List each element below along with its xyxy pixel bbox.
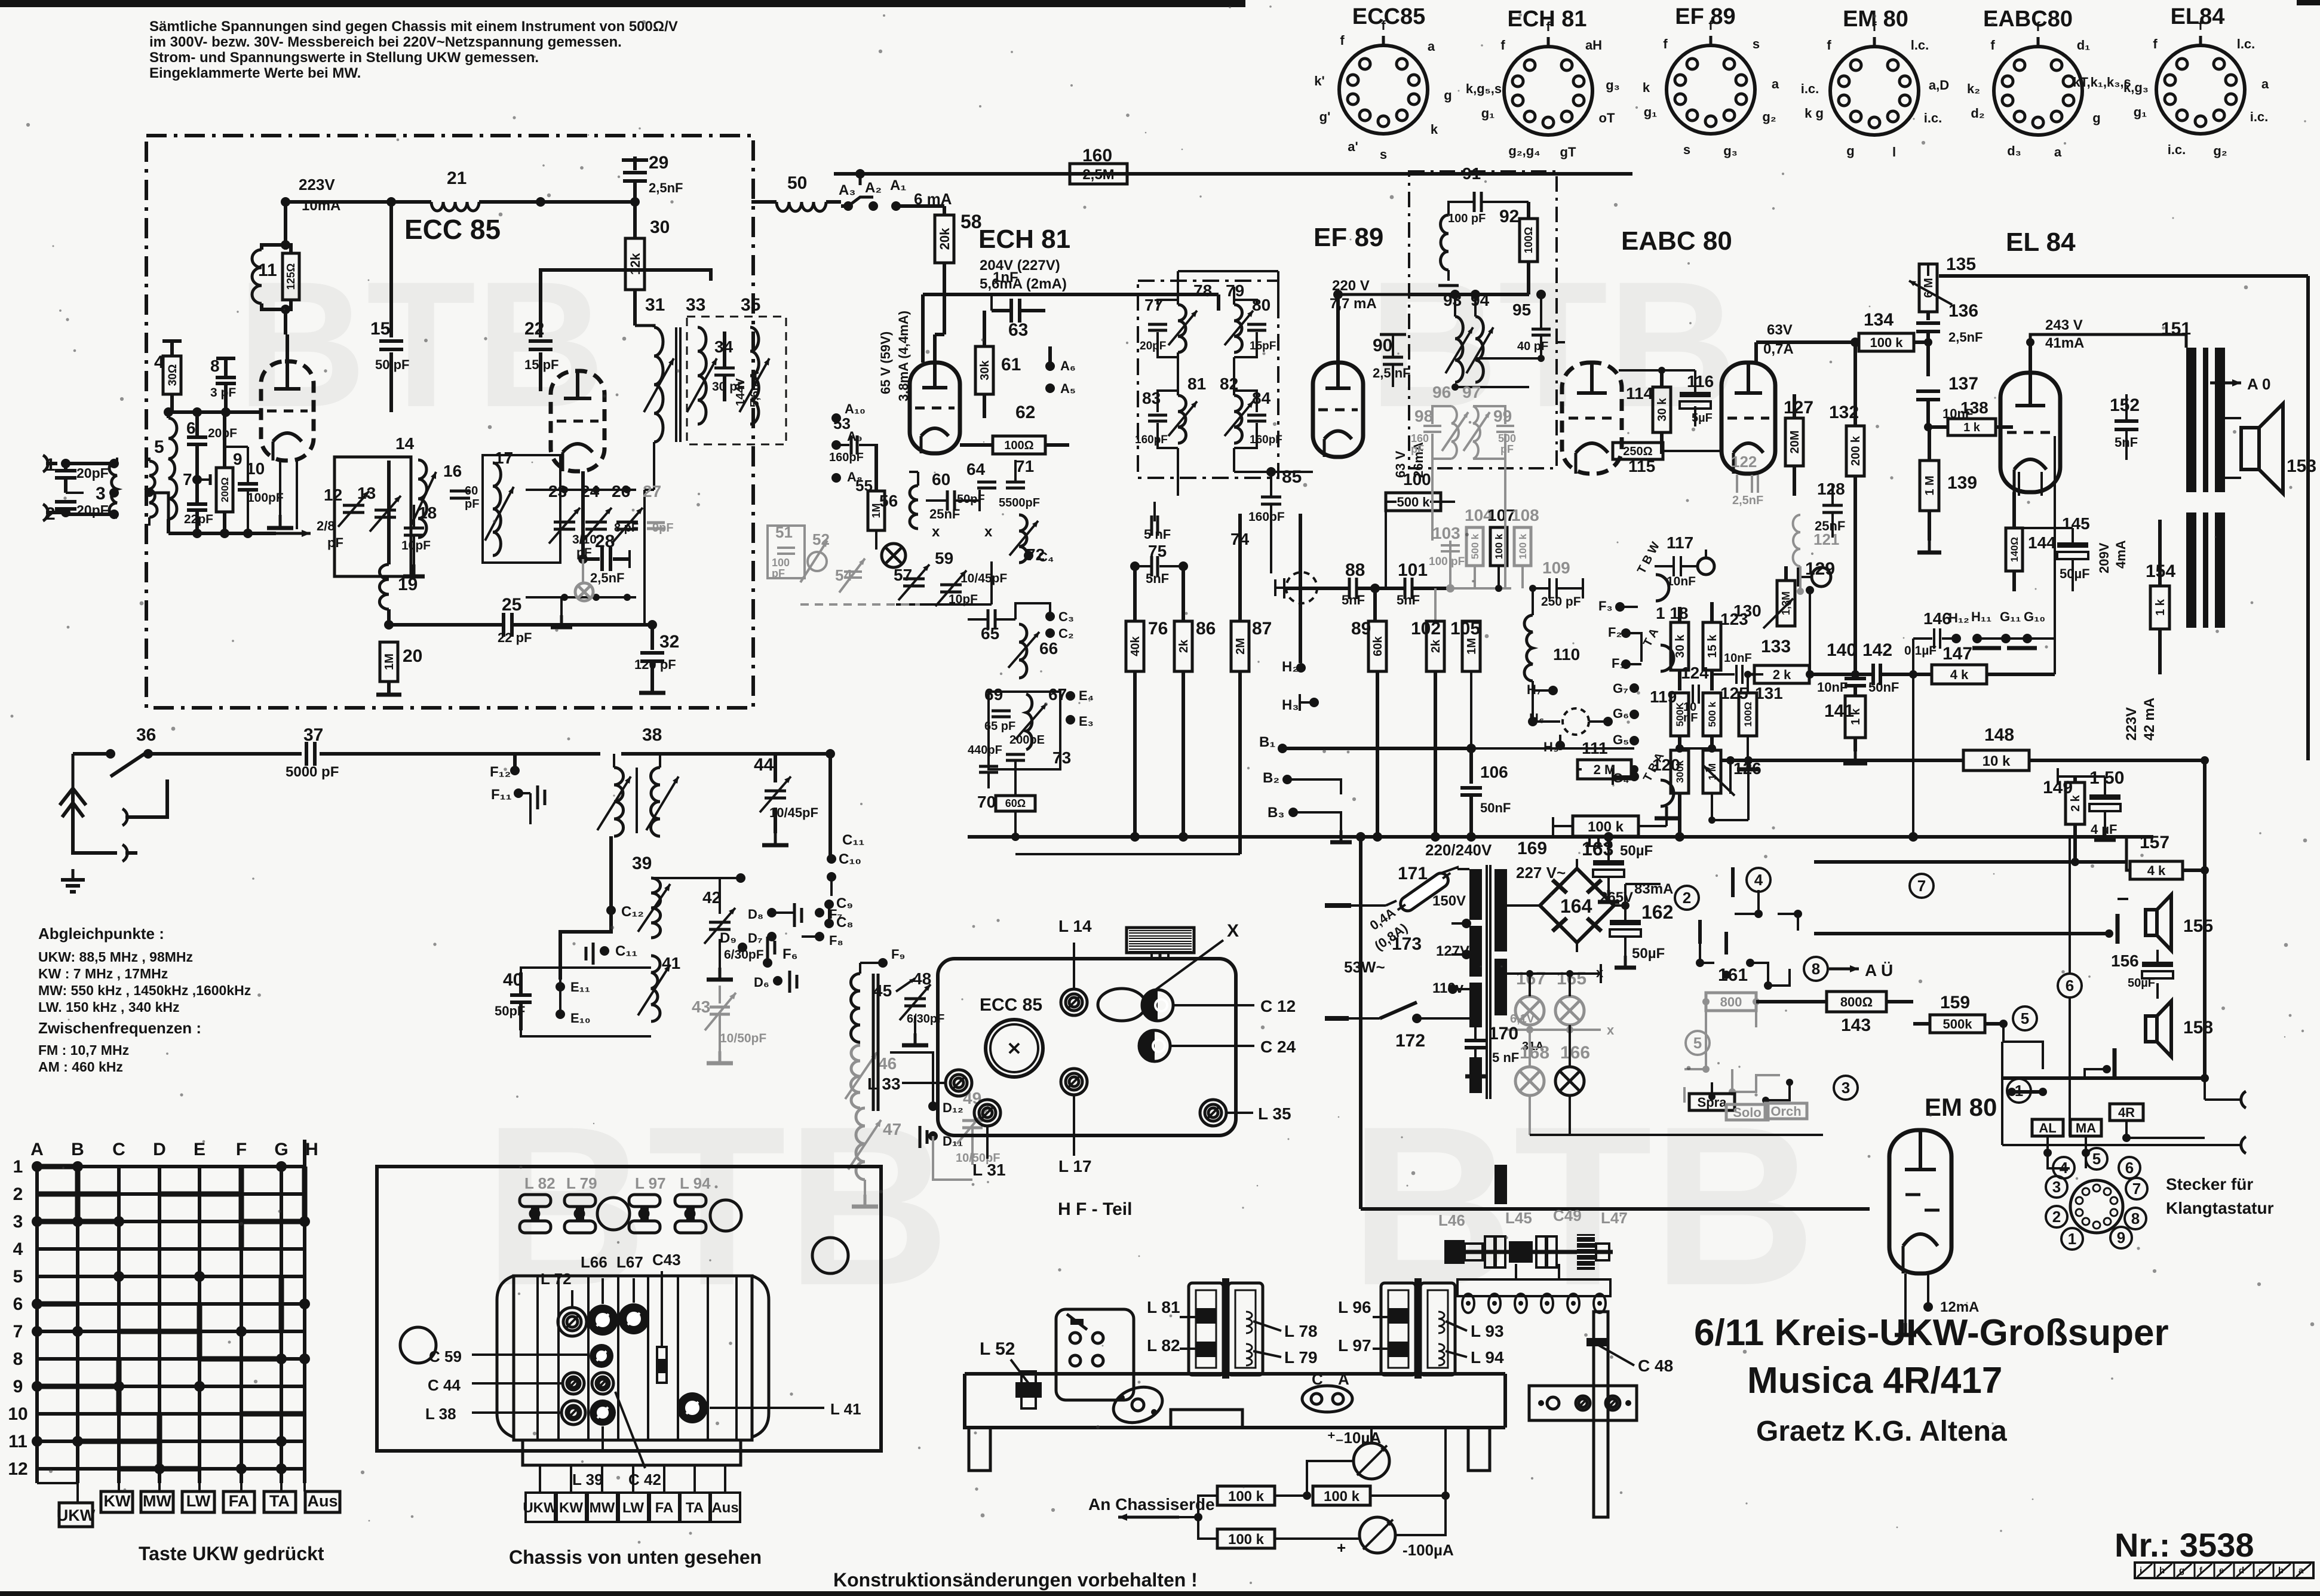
svg-text:Strom- und Spannungswerte in: Strom- und Spannungswerte in Stellung UK… <box>149 50 539 66</box>
terminals A10 A9 A8 <box>831 413 841 423</box>
svg-text:10/45pF: 10/45pF <box>769 805 818 820</box>
svg-text:1: 1 <box>2015 1082 2023 1100</box>
svg-text:5: 5 <box>2021 1009 2029 1027</box>
svg-text:77: 77 <box>1144 296 1163 314</box>
svg-text:ECH 81: ECH 81 <box>978 225 1070 254</box>
svg-text:140Ω: 140Ω <box>2009 537 2020 562</box>
svg-text:8: 8 <box>2131 1210 2140 1227</box>
variable arrows <box>644 358 674 412</box>
svg-text:160pF: 160pF <box>829 451 864 464</box>
wire EABC internal <box>1557 341 1565 343</box>
svg-text:800: 800 <box>1720 995 1742 1009</box>
svg-text:100 k: 100 k <box>1228 1488 1265 1505</box>
svg-text:g: g <box>1444 88 1451 103</box>
svg-text:10pF: 10pF <box>401 539 431 553</box>
svg-text:7: 7 <box>1917 877 1926 895</box>
svg-text:f: f <box>1340 33 1345 48</box>
svg-text:Aus: Aus <box>711 1500 738 1516</box>
svg-text:500 k: 500 k <box>1397 495 1430 510</box>
svg-text:122: 122 <box>1731 453 1757 471</box>
wire IF to EF89 <box>1177 357 1179 395</box>
svg-text:5 nF: 5 nF <box>1492 1050 1519 1065</box>
svg-text:g₁: g₁ <box>1644 105 1658 119</box>
svg-text:f: f <box>1663 36 1668 51</box>
trimmer L33 <box>946 1070 972 1096</box>
wire bottom right bus <box>2003 1076 2205 1080</box>
svg-text:C₁₁: C₁₁ <box>615 943 637 959</box>
svg-text:20: 20 <box>403 646 422 666</box>
svg-text:L 35: L 35 <box>1258 1104 1291 1123</box>
svg-text:65 V (59V): 65 V (59V) <box>878 332 893 394</box>
svg-text:h: h <box>2159 1566 2165 1576</box>
wire grid feed vertical <box>1912 674 1914 837</box>
keyboard matrix grid <box>8 1140 318 1483</box>
svg-text:gT: gT <box>1560 145 1576 159</box>
svg-text:50µF: 50µF <box>2060 566 2090 581</box>
svg-text:L 97: L 97 <box>1338 1336 1371 1355</box>
svg-text:119: 119 <box>1650 687 1677 706</box>
svg-text:42: 42 <box>702 888 721 907</box>
svg-text:152: 152 <box>2110 395 2140 415</box>
svg-text:f: f <box>1546 19 1551 34</box>
HF-Teil box <box>938 959 1236 1135</box>
svg-text:100 k: 100 k <box>1493 533 1505 559</box>
svg-text:116: 116 <box>1687 372 1714 391</box>
terminal F11 <box>514 788 523 798</box>
svg-text:60Ω: 60Ω <box>1005 797 1026 809</box>
svg-text:6/11 Kreis-UKW-Großsuper: 6/11 Kreis-UKW-Großsuper <box>1694 1312 2169 1353</box>
tube socket EM 80 <box>1801 7 1949 159</box>
core L41 <box>677 1392 708 1423</box>
svg-text:87: 87 <box>1252 619 1272 639</box>
svg-text:98: 98 <box>1414 407 1433 425</box>
svg-text:C49: C49 <box>1553 1207 1582 1224</box>
svg-text:109: 109 <box>1542 558 1570 577</box>
svg-text:25nF: 25nF <box>929 507 960 521</box>
svg-text:Spra: Spra <box>1698 1095 1727 1110</box>
svg-text:C₂: C₂ <box>1058 626 1074 641</box>
svg-text:d₃: d₃ <box>2007 143 2021 158</box>
svg-text:69: 69 <box>984 685 1003 704</box>
tube socket EF 89 <box>1643 4 1779 158</box>
svg-text:7: 7 <box>2132 1180 2141 1198</box>
svg-text:A₁: A₁ <box>890 177 906 194</box>
svg-text:18: 18 <box>418 504 437 522</box>
speaker 153 <box>2241 428 2259 469</box>
svg-text:159: 159 <box>1940 993 1970 1012</box>
svg-text:500: 500 <box>1498 432 1516 444</box>
svg-text:133: 133 <box>1761 637 1791 656</box>
dial shaft assembly <box>1444 1234 1613 1270</box>
svg-text:100 k: 100 k <box>1517 533 1529 559</box>
svg-text:2: 2 <box>13 1184 23 1204</box>
svg-text:EF 89: EF 89 <box>1675 4 1735 29</box>
wire speaker column <box>2203 760 2207 1078</box>
AM antenna jacks <box>122 809 127 825</box>
svg-text:11: 11 <box>258 260 277 280</box>
svg-text:250Ω: 250Ω <box>1623 445 1652 458</box>
svg-text:L 78: L 78 <box>1284 1322 1318 1340</box>
tube EF89 <box>1313 363 1363 457</box>
svg-text:Solo: Solo <box>1733 1105 1762 1120</box>
svg-text:pF: pF <box>1411 443 1424 455</box>
terminals D12 D11 <box>928 1101 938 1111</box>
speaker 158 switch <box>2113 1048 2117 1078</box>
svg-text:138: 138 <box>1960 398 1988 417</box>
svg-text:5: 5 <box>1693 1034 1702 1052</box>
coil of 91 <box>1441 215 1449 270</box>
tuning capacitor comb <box>1127 928 1194 959</box>
svg-text:UKW: UKW <box>523 1500 557 1516</box>
trimmer C24 <box>1139 1030 1155 1061</box>
svg-text:11: 11 <box>8 1432 27 1451</box>
hole circle 1 <box>597 1198 630 1230</box>
svg-text:144: 144 <box>2028 533 2056 552</box>
svg-text:s: s <box>1380 147 1387 162</box>
svg-text:1nF: 1nF <box>993 269 1018 286</box>
terminal C11 lower <box>600 946 609 956</box>
svg-text:142: 142 <box>1862 640 1892 660</box>
svg-text:Sämtliche Spannungen sind g: Sämtliche Spannungen sind gegen Chassis … <box>149 19 678 35</box>
svg-text:KW : 7 MHz , 17MHz: KW : 7 MHz , 17MHz <box>38 966 168 981</box>
circled 5 <box>2013 1006 2037 1030</box>
svg-text:L 17: L 17 <box>1058 1157 1092 1175</box>
svg-text:500 k: 500 k <box>1469 533 1481 559</box>
svg-text:148: 148 <box>1984 725 2014 745</box>
svg-text:5nF: 5nF <box>2115 435 2138 450</box>
svg-text:L 38: L 38 <box>425 1405 456 1423</box>
svg-text:14: 14 <box>395 434 415 453</box>
svg-text:100 k: 100 k <box>1228 1531 1265 1548</box>
svg-text:D₇: D₇ <box>748 931 763 946</box>
svg-text:im 300V- bezw. 30V- Messbere: im 300V- bezw. 30V- Messbereich bei 220V… <box>149 34 622 50</box>
svg-text:71: 71 <box>1015 457 1034 475</box>
terminals H12 H11 G11 G10 <box>1951 634 1961 643</box>
grid bold segments <box>37 1167 305 1469</box>
terminal F9 <box>878 958 888 968</box>
circled 6 <box>2058 974 2082 997</box>
svg-text:3: 3 <box>96 484 106 504</box>
svg-text:D: D <box>153 1140 166 1159</box>
svg-text:A₆: A₆ <box>1060 358 1076 373</box>
terminal D6 <box>773 976 782 986</box>
svg-text:4mA: 4mA <box>2113 540 2128 569</box>
svg-text:50nF: 50nF <box>1480 800 1511 815</box>
svg-text:L 72: L 72 <box>541 1270 572 1288</box>
svg-text:H₂: H₂ <box>1282 659 1299 675</box>
svg-text:3 pF: 3 pF <box>210 386 236 400</box>
wire mains left <box>1325 903 1351 908</box>
svg-text:147: 147 <box>1942 644 1972 664</box>
wire top bus 160 <box>834 172 1632 176</box>
meter 100uA <box>1360 1517 1395 1553</box>
svg-text:H F - Teil: H F - Teil <box>1058 1199 1132 1219</box>
svg-text:15 pF: 15 pF <box>524 357 558 372</box>
svg-text:L46: L46 <box>1438 1211 1465 1229</box>
svg-text:5: 5 <box>13 1267 23 1287</box>
svg-text:L47: L47 <box>1601 1209 1628 1227</box>
svg-text:f: f <box>1381 18 1386 33</box>
svg-text:E₁₁: E₁₁ <box>570 980 590 995</box>
svg-text:5: 5 <box>2092 1150 2101 1168</box>
IF can pair 2 <box>1381 1278 1455 1379</box>
svg-text:F₁₁: F₁₁ <box>491 787 512 803</box>
svg-text:E₃: E₃ <box>1079 714 1094 729</box>
terminal F12 <box>510 766 520 775</box>
svg-text:a: a <box>2054 145 2062 159</box>
svg-text:50 pF: 50 pF <box>375 357 409 372</box>
revision hatch strip <box>2135 1563 2313 1578</box>
svg-text:100 pF: 100 pF <box>1448 212 1486 225</box>
svg-text:10nF: 10nF <box>1724 652 1752 665</box>
output transformer 151 <box>2161 319 2225 628</box>
svg-text:30 pF: 30 pF <box>712 380 745 394</box>
svg-text:Orch: Orch <box>1770 1104 1801 1119</box>
grid junction dots <box>32 1161 310 1474</box>
svg-text:50µF: 50µF <box>2128 977 2155 990</box>
terminals D8 D7 <box>767 908 777 917</box>
svg-text:Chassis von unten gesehen: Chassis von unten gesehen <box>509 1546 762 1568</box>
svg-text:k,g₅,s: k,g₅,s <box>1466 81 1502 96</box>
svg-text:78: 78 <box>1193 281 1212 300</box>
svg-text:L 31: L 31 <box>972 1161 1006 1179</box>
wire AVC down <box>1385 502 1387 588</box>
svg-text:C₄: C₄ <box>1038 550 1054 564</box>
phone jack H2 <box>1299 514 1302 663</box>
ground bar <box>279 515 282 528</box>
capacitor 20pF (2) <box>55 500 76 504</box>
wire speaker jacks <box>2204 1078 2206 1100</box>
svg-text:L 52: L 52 <box>980 1339 1015 1359</box>
svg-text:62: 62 <box>1015 403 1035 422</box>
svg-text:114: 114 <box>1626 384 1653 403</box>
svg-text:160pF: 160pF <box>1248 510 1285 524</box>
svg-text:8: 8 <box>1812 960 1820 978</box>
coil mid tap wire <box>1475 357 1541 360</box>
svg-text:96: 96 <box>1432 383 1451 401</box>
svg-text:Zwischenfrequenzen :: Zwischenfrequenzen : <box>38 1019 201 1037</box>
svg-text:21: 21 <box>447 168 467 188</box>
tube socket EABC80 <box>1967 7 2131 159</box>
core lines 45/46 <box>872 974 875 1111</box>
svg-text:g₂: g₂ <box>1762 109 1776 124</box>
wire EF89 plate <box>1336 294 1340 363</box>
resistor 100k b <box>1313 1486 1370 1505</box>
transformer 169 secondary <box>1495 869 1507 1204</box>
trimmer L14 <box>1061 989 1087 1015</box>
svg-text:L 97: L 97 <box>635 1174 666 1192</box>
capacitor 90 gray lower <box>1455 386 1529 388</box>
svg-text:C₃: C₃ <box>1058 609 1074 624</box>
svg-text:30 k: 30 k <box>1674 634 1687 658</box>
svg-text:k: k <box>1431 122 1438 137</box>
svg-text:61: 61 <box>1001 355 1021 375</box>
svg-text:1 50: 1 50 <box>2089 768 2124 788</box>
svg-text:95: 95 <box>1512 300 1531 319</box>
svg-text:TA: TA <box>269 1492 290 1510</box>
tube socket ECC85 <box>1314 4 1451 162</box>
IF filter box 77-84 <box>1138 281 1278 478</box>
svg-text:H₁₂: H₁₂ <box>1948 610 1969 625</box>
svg-text:g: g <box>1846 143 1854 158</box>
svg-text:4R: 4R <box>2118 1105 2135 1120</box>
svg-text:Aus: Aus <box>307 1492 337 1510</box>
svg-text:5: 5 <box>154 437 164 457</box>
trimmer L72 <box>558 1308 587 1336</box>
svg-text:1: 1 <box>2068 1230 2076 1248</box>
svg-text:D₉: D₉ <box>720 930 736 946</box>
svg-text:EABC 80: EABC 80 <box>1621 226 1732 256</box>
svg-text:63: 63 <box>1008 320 1028 340</box>
svg-text:FA: FA <box>229 1492 250 1510</box>
svg-text:A₅: A₅ <box>1060 381 1076 396</box>
core L66 <box>587 1305 618 1336</box>
svg-text:e: e <box>2219 1566 2224 1576</box>
svg-text:140: 140 <box>1827 640 1856 660</box>
ground symbol <box>125 851 137 855</box>
speaker switch contact <box>2116 914 2120 944</box>
svg-text:5nF: 5nF <box>1342 593 1365 607</box>
svg-text:39: 39 <box>632 854 652 873</box>
svg-text:151: 151 <box>2161 319 2191 339</box>
svg-text:129: 129 <box>1805 559 1835 579</box>
IF trimmer L94 <box>675 1195 706 1207</box>
svg-text:9: 9 <box>2117 1229 2125 1247</box>
svg-text:30: 30 <box>650 217 670 237</box>
svg-text:LW: LW <box>622 1500 644 1516</box>
svg-text:5nF: 5nF <box>1397 593 1420 607</box>
trimmer small mid <box>592 1373 613 1394</box>
svg-text:101: 101 <box>1398 560 1428 580</box>
terminals A6 A5 <box>1045 361 1055 371</box>
svg-text:k,g₃: k,g₃ <box>2123 80 2149 95</box>
svg-text:500k: 500k <box>1943 1017 1973 1032</box>
svg-text:pF: pF <box>327 535 343 550</box>
svg-text:A₂: A₂ <box>865 180 882 196</box>
svg-text:1 k: 1 k <box>2154 598 2167 616</box>
svg-text:81: 81 <box>1187 375 1206 393</box>
wire antenna to transformer <box>66 462 110 465</box>
phone jack right <box>1812 567 1831 587</box>
IF unit 81-84 <box>1135 375 1282 448</box>
svg-text:45: 45 <box>873 981 892 1000</box>
svg-text:40 pF: 40 pF <box>1517 340 1548 353</box>
wire cathode bus <box>168 532 276 535</box>
svg-text:4 k: 4 k <box>1950 667 1969 682</box>
svg-text:10/45pF: 10/45pF <box>960 572 1007 585</box>
wire EL84 plate <box>2029 342 2032 373</box>
transformer 169 core <box>1486 865 1488 1099</box>
svg-text:E₄: E₄ <box>1079 688 1094 703</box>
svg-text:L45: L45 <box>1505 1209 1532 1227</box>
svg-text:g': g' <box>1319 109 1331 124</box>
svg-text:2 k: 2 k <box>1773 667 1791 682</box>
core L39 <box>590 1399 616 1426</box>
svg-text:G₁₀: G₁₀ <box>2024 609 2045 624</box>
svg-text:130: 130 <box>1733 601 1762 620</box>
svg-text:2,5nF: 2,5nF <box>1948 330 1983 345</box>
svg-text:92: 92 <box>1499 207 1519 226</box>
IF unit 78/77 <box>1140 281 1276 357</box>
tube socket EL84 <box>2123 4 2269 158</box>
svg-text:g₁: g₁ <box>2134 105 2147 119</box>
svg-text:124: 124 <box>1681 664 1709 682</box>
svg-text:125Ω: 125Ω <box>285 263 297 290</box>
svg-text:204V (227V): 204V (227V) <box>980 257 1060 274</box>
svg-text:27: 27 <box>643 482 661 501</box>
transformer 169 primary <box>1457 867 1482 1093</box>
svg-text:MW: MW <box>143 1492 171 1510</box>
svg-text:1M: 1M <box>1465 638 1478 655</box>
shield dashed box 33-35 <box>687 317 786 444</box>
svg-text:A: A <box>1338 1370 1349 1388</box>
Klangtastatur socket <box>2046 1148 2147 1250</box>
svg-text:100 pF: 100 pF <box>1429 555 1465 568</box>
svg-text:pF: pF <box>465 498 479 511</box>
svg-text:2/8: 2/8 <box>317 518 335 533</box>
svg-text:a': a' <box>1348 139 1358 154</box>
svg-text:MW: MW <box>590 1500 615 1516</box>
terminal C12 <box>606 906 616 915</box>
antenna symbol <box>71 788 75 833</box>
svg-text:136: 136 <box>1948 301 1978 321</box>
resistor 100k a <box>1217 1486 1275 1505</box>
svg-text:227 V~: 227 V~ <box>1516 864 1566 882</box>
svg-text:36: 36 <box>136 725 156 745</box>
svg-text:127: 127 <box>1784 398 1813 418</box>
svg-text:85: 85 <box>1282 467 1302 487</box>
svg-text:128: 128 <box>1817 480 1845 498</box>
svg-text:100Ω: 100Ω <box>1523 227 1535 253</box>
svg-text:C₁₀: C₁₀ <box>839 851 861 867</box>
svg-text:6: 6 <box>2066 977 2074 995</box>
svg-text:143: 143 <box>1841 1015 1871 1035</box>
svg-text:E₁₀: E₁₀ <box>570 1011 591 1026</box>
trimmer L31 <box>974 1100 1001 1126</box>
ratio detector dash-dot box <box>1409 171 1557 468</box>
svg-text:5nF: 5nF <box>1146 571 1169 586</box>
svg-text:G₆: G₆ <box>1613 706 1629 721</box>
svg-text:L 94: L 94 <box>680 1174 711 1192</box>
svg-text:153: 153 <box>2287 456 2316 476</box>
svg-text:10pF: 10pF <box>949 593 978 606</box>
wire audio line <box>1855 673 1872 676</box>
tube EABC80 triode <box>1721 363 1775 474</box>
svg-text:ECC85: ECC85 <box>1352 4 1426 29</box>
ground stubs tank <box>560 597 563 615</box>
svg-text:30Ω: 30Ω <box>167 364 179 386</box>
gray AVC line <box>1450 587 1511 590</box>
svg-text:Abgleichpunkte :: Abgleichpunkte : <box>38 925 164 943</box>
svg-text:f: f <box>2198 18 2203 33</box>
svg-text:L 33: L 33 <box>867 1075 901 1093</box>
hole circle left <box>400 1327 436 1363</box>
svg-text:1M: 1M <box>383 653 396 670</box>
label C12 leader <box>1174 1004 1254 1006</box>
core lines 31-33 <box>675 327 677 442</box>
svg-text:250 pF: 250 pF <box>1541 595 1581 609</box>
svg-text:10nF: 10nF <box>1667 575 1696 588</box>
svg-text:99: 99 <box>1493 407 1512 425</box>
svg-text:EL84: EL84 <box>2171 4 2225 29</box>
svg-text:4: 4 <box>2060 1159 2069 1177</box>
svg-text:f: f <box>1827 38 1831 53</box>
trimmer L17 <box>1061 1069 1087 1095</box>
svg-text:Graetz K.G. Altena: Graetz K.G. Altena <box>1756 1416 2007 1447</box>
svg-text:s: s <box>1753 36 1760 51</box>
svg-text:59: 59 <box>935 549 953 567</box>
svg-text:20pF: 20pF <box>208 426 237 440</box>
